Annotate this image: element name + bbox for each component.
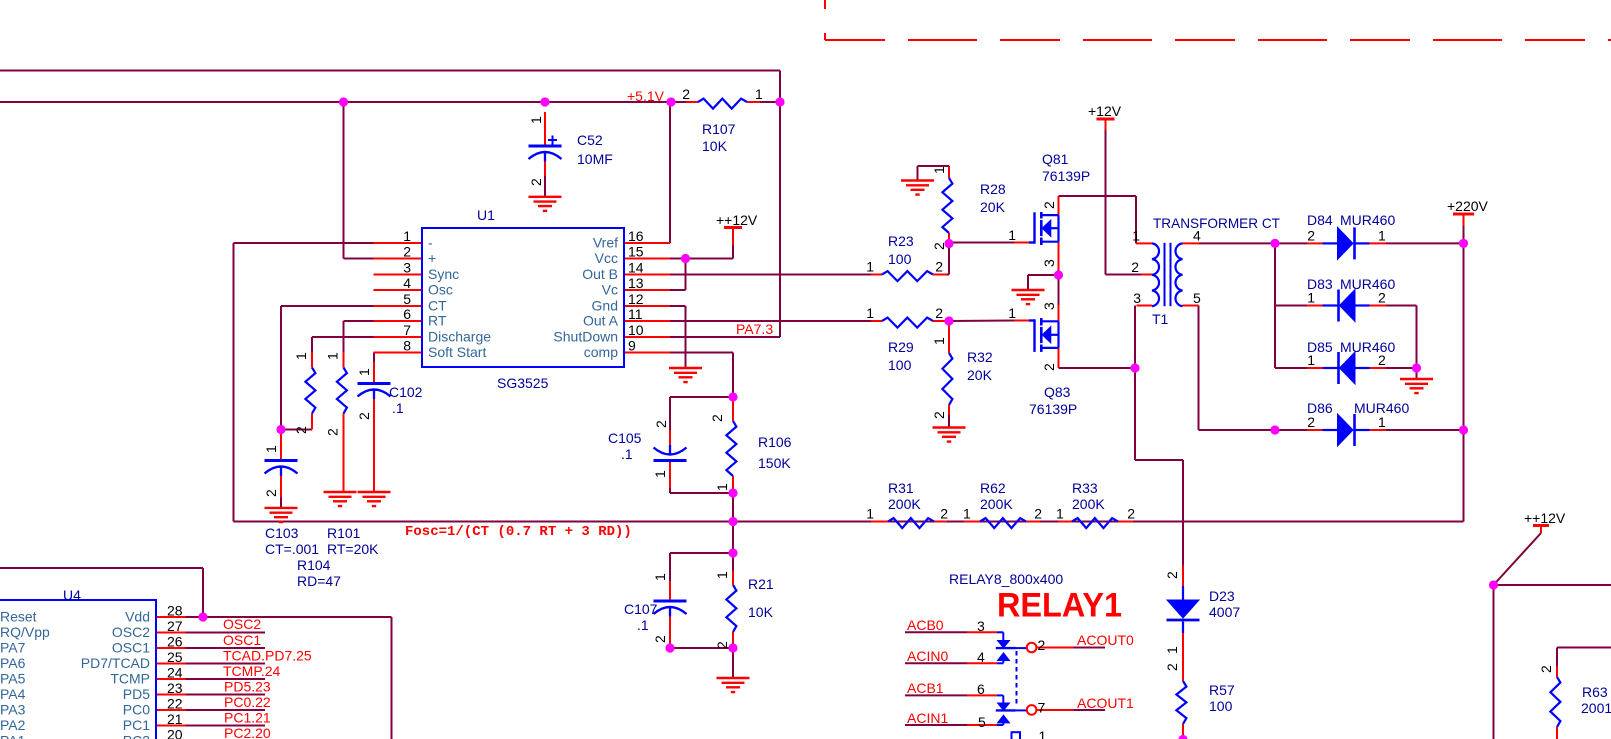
svg-text:Vref: Vref — [593, 235, 618, 251]
svg-text:2: 2 — [931, 411, 947, 419]
svg-text:PD5: PD5 — [123, 686, 150, 702]
svg-text:T1: T1 — [1152, 311, 1169, 327]
svg-text:CT: CT — [428, 298, 447, 314]
svg-text:2: 2 — [293, 426, 309, 434]
svg-text:11: 11 — [628, 306, 643, 322]
svg-text:Q81: Q81 — [1042, 151, 1069, 167]
svg-text:28: 28 — [167, 603, 183, 619]
svg-text:TCMP.24: TCMP.24 — [223, 663, 281, 679]
svg-text:Vc: Vc — [602, 282, 618, 298]
svg-text:D84: D84 — [1307, 212, 1333, 228]
svg-text:10MF: 10MF — [577, 151, 613, 167]
svg-text:PC1.21: PC1.21 — [224, 710, 271, 726]
svg-text:2: 2 — [1307, 414, 1315, 430]
svg-text:14: 14 — [628, 260, 644, 276]
svg-text:3: 3 — [403, 260, 411, 276]
svg-text:R23: R23 — [888, 233, 914, 249]
svg-text:PA6: PA6 — [0, 655, 26, 671]
svg-text:5: 5 — [1193, 290, 1201, 306]
svg-text:200K: 200K — [888, 496, 921, 512]
svg-text:1: 1 — [1378, 414, 1386, 430]
svg-text:1: 1 — [931, 337, 947, 345]
svg-text:76139P: 76139P — [1042, 168, 1090, 184]
svg-text:2: 2 — [709, 414, 725, 422]
svg-text:2: 2 — [403, 244, 411, 260]
svg-text:2001: 2001 — [1581, 700, 1611, 716]
svg-text:PC0: PC0 — [123, 702, 150, 718]
svg-text:2: 2 — [935, 259, 943, 275]
svg-text:15: 15 — [628, 244, 644, 260]
svg-text:-: - — [428, 235, 433, 251]
svg-text:3: 3 — [977, 618, 985, 634]
svg-text:RT: RT — [428, 313, 447, 329]
svg-text:1: 1 — [1307, 352, 1315, 368]
svg-text:Gnd: Gnd — [592, 298, 618, 314]
svg-text:2: 2 — [356, 412, 372, 420]
svg-text:ACB1: ACB1 — [907, 680, 944, 696]
svg-text:Osc: Osc — [428, 282, 453, 298]
svg-text:25: 25 — [167, 649, 183, 665]
svg-text:27: 27 — [167, 618, 183, 634]
svg-text:Sync: Sync — [428, 266, 459, 282]
svg-text:PA7.3: PA7.3 — [736, 321, 773, 337]
svg-text:6: 6 — [403, 306, 411, 322]
svg-text:21: 21 — [167, 711, 183, 727]
svg-text:U1: U1 — [477, 207, 495, 223]
svg-text:R104: R104 — [297, 557, 331, 573]
svg-text:20: 20 — [167, 727, 183, 739]
svg-text:2: 2 — [1307, 228, 1315, 244]
svg-text:100: 100 — [888, 357, 912, 373]
svg-text:MUR460: MUR460 — [1340, 276, 1395, 292]
svg-text:2: 2 — [1041, 201, 1057, 209]
svg-text:7: 7 — [403, 322, 411, 338]
svg-text:ShutDown: ShutDown — [553, 329, 618, 345]
svg-text:+5.1V: +5.1V — [627, 88, 665, 104]
svg-text:R63: R63 — [1582, 684, 1608, 700]
svg-text:2: 2 — [940, 506, 948, 522]
svg-text:ACB0: ACB0 — [907, 617, 944, 633]
svg-text:R32: R32 — [967, 349, 993, 365]
svg-text:2: 2 — [1038, 637, 1046, 653]
svg-text:TCMP: TCMP — [110, 671, 150, 687]
svg-text:1: 1 — [652, 470, 668, 478]
svg-text:.1: .1 — [392, 400, 404, 416]
svg-text:C107: C107 — [624, 601, 658, 617]
svg-text:PD5.23: PD5.23 — [224, 679, 271, 695]
svg-text:4007: 4007 — [1209, 604, 1240, 620]
svg-text:3: 3 — [1041, 302, 1057, 310]
svg-text:Vdd: Vdd — [125, 609, 150, 625]
svg-text:1: 1 — [866, 506, 874, 522]
svg-text:PA3: PA3 — [0, 702, 26, 718]
svg-text:R29: R29 — [888, 339, 914, 355]
svg-text:20K: 20K — [967, 367, 993, 383]
svg-text:C52: C52 — [577, 132, 603, 148]
svg-text:ACIN0: ACIN0 — [907, 648, 948, 664]
svg-text:C103: C103 — [265, 525, 299, 541]
svg-text:PC0.22: PC0.22 — [224, 694, 271, 710]
svg-text:3: 3 — [1133, 290, 1141, 306]
svg-text:7: 7 — [1038, 700, 1046, 716]
svg-text:SG3525: SG3525 — [497, 375, 549, 391]
svg-text:Out A: Out A — [583, 313, 619, 329]
svg-text:Discharge: Discharge — [428, 329, 491, 345]
svg-text:1: 1 — [293, 352, 309, 360]
svg-text:4: 4 — [403, 275, 411, 291]
svg-text:2: 2 — [931, 242, 947, 250]
svg-text:OSC1: OSC1 — [223, 632, 261, 648]
svg-text:2: 2 — [1538, 665, 1554, 673]
svg-text:C105: C105 — [608, 430, 642, 446]
svg-text:RT=20K: RT=20K — [327, 541, 379, 557]
svg-text:R21: R21 — [748, 576, 774, 592]
svg-text:26: 26 — [167, 634, 183, 650]
svg-text:1: 1 — [1056, 506, 1064, 522]
svg-text:8: 8 — [403, 338, 411, 354]
svg-text:1: 1 — [263, 445, 279, 453]
svg-text:1: 1 — [1008, 227, 1016, 243]
svg-text:R31: R31 — [888, 480, 914, 496]
svg-text:2: 2 — [682, 86, 690, 102]
svg-text:+: + — [428, 250, 436, 266]
svg-text:R28: R28 — [980, 181, 1006, 197]
svg-text:12: 12 — [628, 291, 644, 307]
svg-text:1: 1 — [325, 352, 341, 360]
svg-text:1: 1 — [403, 228, 411, 244]
svg-text:10K: 10K — [702, 138, 728, 154]
svg-text:RD=47: RD=47 — [297, 573, 341, 589]
svg-text:ACIN1: ACIN1 — [907, 710, 948, 726]
svg-text:RELAY1: RELAY1 — [997, 587, 1122, 625]
svg-text:1: 1 — [528, 116, 544, 124]
svg-text:Fosc=1/(CT (0.7 RT + 3 RD)): Fosc=1/(CT (0.7 RT + 3 RD)) — [405, 524, 632, 540]
svg-text:2: 2 — [263, 489, 279, 497]
svg-text:1: 1 — [1378, 228, 1386, 244]
svg-text:23: 23 — [167, 680, 183, 696]
svg-text:1: 1 — [1307, 290, 1315, 306]
svg-text:1: 1 — [963, 506, 971, 522]
svg-text:U4: U4 — [63, 587, 81, 603]
svg-text:1: 1 — [714, 483, 730, 491]
svg-text:C102: C102 — [389, 384, 423, 400]
svg-text:R106: R106 — [758, 434, 792, 450]
svg-text:1: 1 — [755, 86, 763, 102]
svg-text:R107: R107 — [702, 121, 736, 137]
svg-text:PA5: PA5 — [0, 671, 26, 687]
svg-text:2: 2 — [1378, 290, 1386, 306]
svg-text:RELAY8_800x400: RELAY8_800x400 — [949, 571, 1063, 587]
svg-text:Q83: Q83 — [1044, 384, 1071, 400]
svg-text:2: 2 — [1164, 663, 1180, 671]
svg-text:2: 2 — [714, 641, 730, 649]
svg-text:76139P: 76139P — [1029, 401, 1077, 417]
svg-text:TCAD.PD7.25: TCAD.PD7.25 — [223, 648, 312, 664]
svg-text:.1: .1 — [621, 446, 633, 462]
svg-text:2: 2 — [1127, 506, 1135, 522]
svg-text:200K: 200K — [980, 496, 1013, 512]
svg-text:++12V: ++12V — [716, 212, 758, 228]
svg-text:22: 22 — [167, 696, 183, 712]
svg-text:PA4: PA4 — [0, 686, 26, 702]
svg-text:PC2.20: PC2.20 — [224, 725, 271, 739]
svg-text:PA1: PA1 — [0, 733, 26, 739]
svg-text:4: 4 — [1193, 228, 1201, 244]
svg-text:10: 10 — [628, 322, 644, 338]
svg-text:CT=.001: CT=.001 — [265, 541, 319, 557]
svg-text:R62: R62 — [980, 480, 1006, 496]
svg-text:5: 5 — [978, 714, 986, 730]
svg-text:1: 1 — [1039, 728, 1047, 739]
svg-text:16: 16 — [628, 228, 644, 244]
svg-text:Soft Start: Soft Start — [428, 344, 486, 360]
svg-text:comp: comp — [584, 344, 618, 360]
svg-text:PA2: PA2 — [0, 717, 26, 733]
svg-text:1: 1 — [1164, 646, 1180, 654]
svg-text:D23: D23 — [1209, 588, 1235, 604]
svg-text:++12V: ++12V — [1524, 510, 1566, 526]
svg-text:PA7: PA7 — [0, 640, 26, 656]
svg-text:ACOUT0: ACOUT0 — [1077, 632, 1134, 648]
svg-text:Reset: Reset — [0, 609, 37, 625]
svg-text:200K: 200K — [1072, 496, 1105, 512]
svg-text:2: 2 — [935, 305, 943, 321]
svg-text:1: 1 — [866, 305, 874, 321]
svg-text:13: 13 — [628, 275, 644, 291]
svg-text:3: 3 — [1041, 259, 1057, 267]
svg-text:.1: .1 — [637, 617, 649, 633]
svg-text:MUR460: MUR460 — [1340, 339, 1395, 355]
svg-text:4: 4 — [977, 649, 985, 665]
svg-text:10K: 10K — [748, 604, 774, 620]
svg-text:PC1: PC1 — [123, 717, 150, 733]
svg-text:2: 2 — [652, 635, 668, 643]
svg-text:2: 2 — [1378, 352, 1386, 368]
svg-text:6: 6 — [977, 681, 985, 697]
svg-text:2: 2 — [653, 420, 669, 428]
svg-text:PC2: PC2 — [123, 733, 150, 739]
svg-text:9: 9 — [628, 338, 636, 354]
svg-text:OSC2: OSC2 — [223, 616, 261, 632]
svg-text:2: 2 — [1041, 363, 1057, 371]
svg-text:1: 1 — [1008, 305, 1016, 321]
svg-text:OSC1: OSC1 — [112, 640, 150, 656]
svg-text:PD7/TCAD: PD7/TCAD — [81, 655, 150, 671]
svg-text:5: 5 — [403, 291, 411, 307]
svg-text:1: 1 — [931, 166, 947, 174]
svg-text:1: 1 — [356, 368, 372, 376]
svg-text:Vcc: Vcc — [595, 250, 618, 266]
svg-text:1: 1 — [652, 573, 668, 581]
svg-text:150K: 150K — [758, 455, 791, 471]
svg-text:MUR460: MUR460 — [1340, 212, 1395, 228]
svg-text:2: 2 — [325, 428, 341, 436]
svg-text:TRANSFORMER CT: TRANSFORMER CT — [1153, 215, 1280, 231]
svg-text:1: 1 — [866, 259, 874, 275]
svg-text:+220V: +220V — [1447, 198, 1489, 214]
svg-text:2: 2 — [1034, 506, 1042, 522]
svg-text:20K: 20K — [980, 199, 1006, 215]
svg-text:R101: R101 — [327, 525, 361, 541]
svg-text:+12V: +12V — [1088, 103, 1122, 119]
svg-text:100: 100 — [888, 251, 912, 267]
svg-text:2: 2 — [1164, 571, 1180, 579]
svg-text:Out B: Out B — [582, 266, 618, 282]
svg-text:ACOUT1: ACOUT1 — [1077, 695, 1134, 711]
svg-text:OSC2: OSC2 — [112, 624, 150, 640]
svg-text:R33: R33 — [1072, 480, 1098, 496]
svg-text:2: 2 — [1131, 259, 1139, 275]
svg-text:1: 1 — [714, 571, 730, 579]
svg-text:24: 24 — [167, 665, 183, 681]
svg-text:2: 2 — [528, 178, 544, 186]
svg-text:R57: R57 — [1209, 682, 1235, 698]
svg-text:100: 100 — [1209, 698, 1233, 714]
svg-text:RQ/Vpp: RQ/Vpp — [0, 624, 50, 640]
svg-text:1: 1 — [1132, 228, 1140, 244]
